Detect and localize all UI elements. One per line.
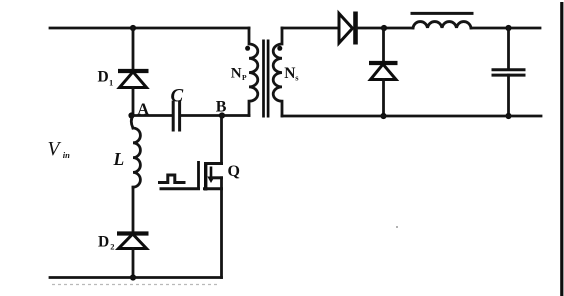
wire: node B to transformer primary bottom lead <box>222 114 249 117</box>
phase dot secondary <box>277 46 282 51</box>
junction node at top rail / D1 <box>130 25 136 31</box>
diode D4 (freewheeling) <box>369 28 398 116</box>
svg-text:s: s <box>295 73 299 83</box>
diode D1 <box>118 71 149 88</box>
svg-text:N: N <box>231 66 242 82</box>
gate drive pulse symbol <box>160 175 185 183</box>
junction node at D4 bottom <box>380 113 386 119</box>
scan artifact speck <box>396 226 398 228</box>
wire: inductor L to D2 cathode <box>132 187 135 233</box>
wire: top input rail <box>50 27 249 30</box>
wire: D1 anode to node A <box>132 88 135 116</box>
wire: MOSFET source to bottom rail <box>220 178 223 278</box>
phase dot primary <box>245 46 250 51</box>
inductor L <box>131 116 140 188</box>
svg-text:D: D <box>98 69 109 86</box>
svg-text:B: B <box>216 99 227 116</box>
transformer secondary winding Ns <box>273 28 282 116</box>
wire: secondary bottom rail <box>282 115 541 118</box>
scan artifact dashed line under bottom rail <box>52 284 218 286</box>
svg-text:V: V <box>48 139 62 160</box>
transformer primary winding Np <box>249 28 258 116</box>
wire: inductor to output <box>471 27 540 30</box>
node B junction dot <box>219 112 225 118</box>
svg-text:Q: Q <box>228 163 240 180</box>
transistor Q (power MOSFET) <box>199 161 222 191</box>
output capacitor <box>493 28 524 116</box>
wire: node B down to MOSFET drain <box>220 116 223 164</box>
wire: top rail to D1 cathode <box>132 28 135 71</box>
svg-text:1: 1 <box>109 78 113 88</box>
capacitor C <box>173 102 179 130</box>
diode D3 (series rectifier) <box>339 12 356 45</box>
svg-text:D: D <box>98 234 109 251</box>
svg-text:2: 2 <box>110 242 114 252</box>
junction node at bottom rail <box>130 274 136 280</box>
svg-text:L: L <box>113 149 125 169</box>
svg-text:N: N <box>284 65 295 82</box>
border line right <box>560 2 563 296</box>
wire: D3 cathode to junction <box>357 27 413 30</box>
junction node at D4 top <box>381 25 387 31</box>
junction node at output capacitor bottom <box>505 113 511 119</box>
wire: secondary top to diode D3 <box>282 27 339 30</box>
node A junction dot <box>128 112 134 118</box>
wire: capacitor C to node B <box>181 114 222 117</box>
junction node at output capacitor top <box>505 25 511 31</box>
wire: node A to capacitor C <box>132 114 172 117</box>
wire: gate lead to Q <box>161 187 199 190</box>
svg-text:in: in <box>63 150 70 160</box>
output filter inductor <box>413 22 471 28</box>
svg-text:C: C <box>171 86 184 107</box>
inductor core bar <box>412 12 472 15</box>
svg-text:P: P <box>242 73 247 82</box>
transformer core <box>264 40 269 118</box>
wire: D2 anode to bottom rail <box>132 249 135 278</box>
diode D2 <box>117 234 149 249</box>
wire: bottom input rail <box>50 276 222 279</box>
